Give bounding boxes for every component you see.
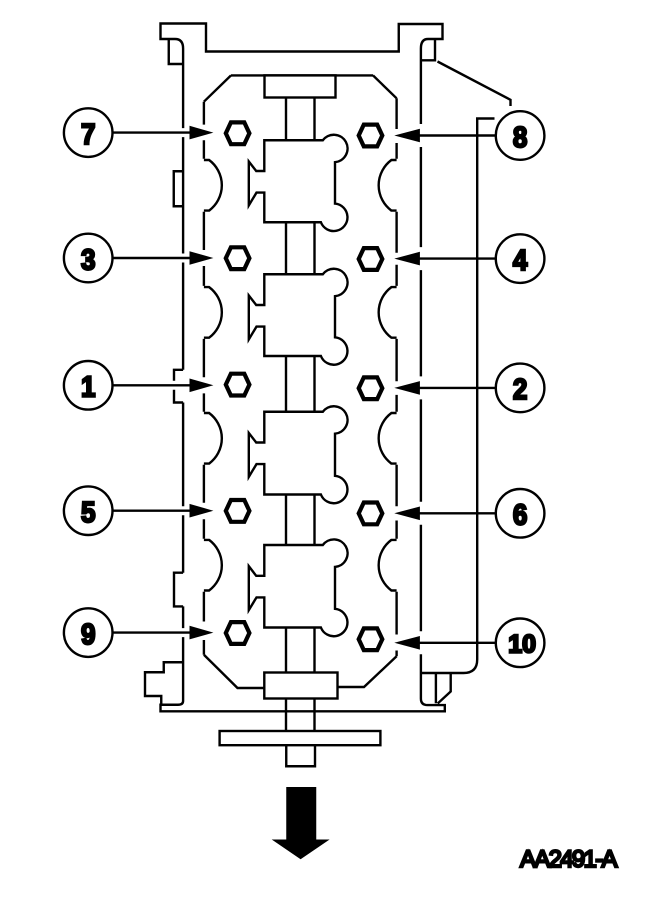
- callout circle 10: [496, 619, 545, 668]
- bottom-right foot: [436, 673, 451, 704]
- head left edge: [203, 102, 205, 655]
- head bolt 7: [226, 122, 250, 144]
- leader arrow 4: [419, 257, 496, 259]
- cam bearing cap 1: [249, 135, 348, 231]
- svg-text:7: 7: [81, 119, 96, 151]
- svg-text:AA2491-A: AA2491-A: [520, 846, 617, 873]
- callout circle 5: [64, 486, 113, 535]
- callout circle 9: [64, 608, 113, 657]
- bottom-left stepped lug: [145, 662, 183, 705]
- bottom-left chamfer and shelf: [204, 655, 264, 688]
- cam bearing cap 2: [249, 269, 348, 365]
- head bolt 10: [359, 628, 383, 650]
- right side rail: [420, 49, 422, 699]
- callout circle 4: [496, 234, 545, 283]
- top-left chamfer: [204, 75, 231, 101]
- leader arrow 3: [113, 257, 191, 259]
- svg-text:1: 1: [81, 372, 96, 404]
- leader arrow 1: [113, 384, 191, 386]
- camshaft nose stub: [286, 745, 315, 766]
- svg-text:4: 4: [513, 245, 528, 277]
- head bolt 1: [226, 374, 250, 396]
- bottom cam retainer plate: [264, 673, 337, 699]
- leader arrow 7: [113, 131, 191, 133]
- corner pointer line: [438, 62, 511, 107]
- right outer rail with callout-8 bracket: [421, 119, 495, 674]
- svg-text:2: 2: [513, 374, 528, 406]
- svg-text:6: 6: [513, 500, 528, 532]
- leader arrow 5: [113, 510, 191, 512]
- bottom plate baseline: [161, 699, 445, 712]
- callout circle 2: [496, 364, 545, 413]
- svg-text:9: 9: [81, 619, 96, 651]
- right tab lower step: [421, 39, 435, 60]
- head bolt 4: [359, 248, 383, 270]
- head cover top edge: [231, 74, 373, 76]
- callout circle 6: [496, 489, 545, 538]
- svg-text:3: 3: [81, 244, 96, 276]
- left side rail: [174, 49, 183, 702]
- top flange with corner tabs: [161, 24, 443, 52]
- cam bearing cap 4: [249, 539, 348, 636]
- svg-text:8: 8: [513, 122, 528, 154]
- head bolt 3: [226, 247, 250, 269]
- head bolt 2: [359, 377, 383, 399]
- left rail upper boss: [174, 171, 183, 206]
- leader arrow 8: [419, 134, 496, 136]
- lower cross plate: [220, 731, 381, 745]
- callout circle 1: [64, 361, 113, 410]
- leader arrow 6: [419, 512, 496, 514]
- leader arrow 2: [419, 387, 496, 389]
- head bolt 6: [359, 503, 383, 525]
- svg-text:10: 10: [508, 631, 536, 659]
- bottom-right chamfer and shelf: [338, 656, 397, 687]
- head right edge: [395, 98, 397, 656]
- top cam retainer plate: [265, 75, 336, 97]
- callout circle 7: [64, 108, 113, 157]
- leader arrow 9: [113, 631, 191, 633]
- callout circle 8: [496, 111, 545, 160]
- front-of-engine arrow: [272, 787, 330, 859]
- top-right chamfer: [373, 75, 397, 98]
- right edge water jacket scallops: [379, 160, 397, 591]
- svg-text:5: 5: [81, 497, 96, 529]
- callout circle 3: [64, 234, 113, 283]
- leader arrow 10: [419, 642, 496, 644]
- left tab lower step: [169, 39, 183, 64]
- camshaft center rails: [286, 98, 315, 732]
- head bolt 9: [226, 622, 250, 644]
- cam bearing cap 3: [249, 406, 348, 503]
- left edge water jacket scallops: [204, 160, 222, 591]
- head bolt 5: [226, 500, 250, 522]
- head bolt 8: [359, 125, 383, 147]
